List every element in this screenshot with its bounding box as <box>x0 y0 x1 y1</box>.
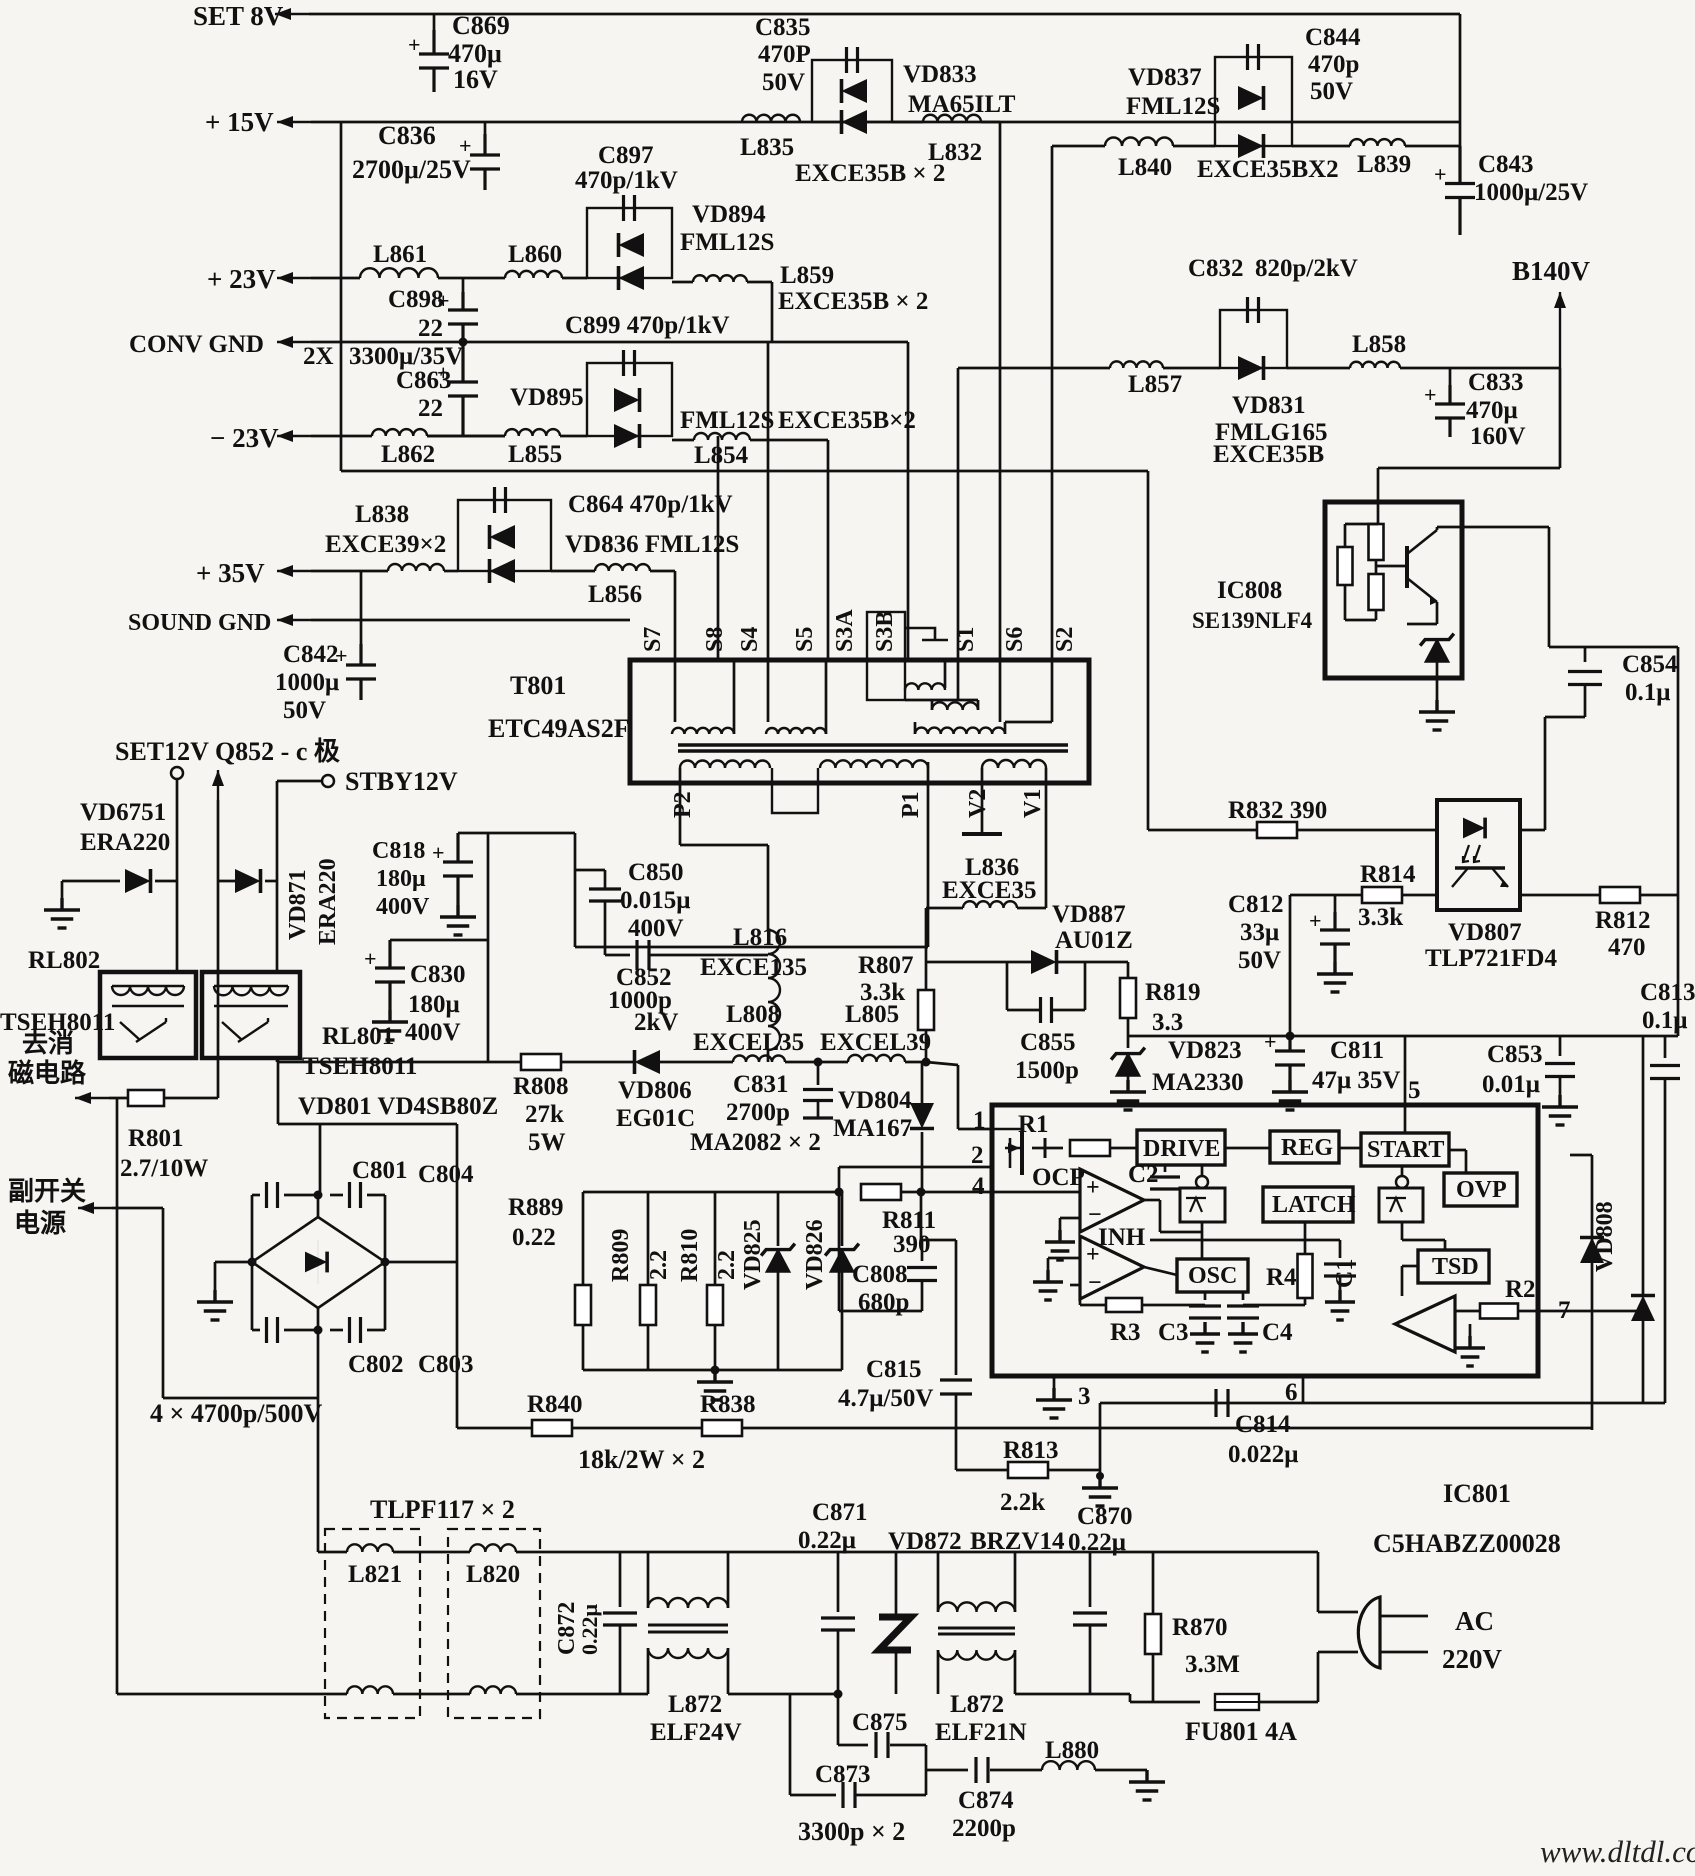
svg-text:C863: C863 <box>396 367 452 394</box>
wire <box>905 699 978 702</box>
diode VD833a <box>842 79 868 103</box>
wire <box>1201 1165 1204 1176</box>
svg-text:EXCE35B × 2: EXCE35B × 2 <box>778 288 928 315</box>
wire <box>218 880 235 883</box>
wire <box>1159 1200 1162 1232</box>
wire to S5 <box>827 440 830 660</box>
svg-text:5W: 5W <box>528 1129 566 1156</box>
svg-text:+: + <box>432 840 445 865</box>
svg-text:TLPF117 × 2: TLPF117 × 2 <box>370 1495 515 1524</box>
capacitor <box>1150 1177 1180 1189</box>
LATCH block <box>1263 1187 1353 1222</box>
svg-text:C1: C1 <box>1332 1259 1358 1288</box>
svg-text:S2: S2 <box>1052 627 1078 652</box>
svg-text:2200p: 2200p <box>952 1815 1016 1842</box>
svg-text:2X: 2X <box>303 343 334 370</box>
inductor L820 bottom <box>470 1686 516 1694</box>
wire <box>1449 1149 1466 1152</box>
capacitor C801 <box>267 1182 278 1208</box>
wire pin3 <box>1053 1376 1056 1388</box>
wire <box>1459 14 1462 146</box>
svg-text:1: 1 <box>973 1107 986 1134</box>
capacitor C869 <box>419 30 449 92</box>
wire <box>162 1208 165 1398</box>
wire <box>487 833 490 1062</box>
wire <box>1160 1231 1202 1234</box>
svg-text:400V: 400V <box>628 915 684 942</box>
svg-text:R870: R870 <box>1172 1614 1228 1641</box>
svg-text:L816: L816 <box>733 924 787 951</box>
svg-text:C3: C3 <box>1158 1319 1189 1346</box>
diode VD895b <box>614 424 640 448</box>
junction <box>1286 1032 1295 1041</box>
snubber box VD833 <box>812 60 892 122</box>
wire <box>921 1132 924 1192</box>
svg-text:L855: L855 <box>508 441 562 468</box>
svg-text:+: + <box>1424 382 1437 407</box>
wire <box>176 881 179 972</box>
wire <box>838 1192 841 1311</box>
wire to S1 <box>957 368 960 660</box>
arrow <box>277 121 311 123</box>
wire main bus <box>277 1061 523 1064</box>
wire <box>317 1330 320 1398</box>
wire <box>728 1551 838 1554</box>
svg-text:L872: L872 <box>668 1691 722 1718</box>
inductor L838 <box>388 564 444 571</box>
svg-text:VD871: VD871 <box>285 869 311 940</box>
wire <box>1242 1292 1245 1300</box>
svg-text:L821: L821 <box>348 1561 402 1588</box>
svg-text:L861: L861 <box>373 241 427 268</box>
inductor <box>112 986 184 995</box>
wire <box>1045 768 1048 783</box>
wire <box>1142 1304 1205 1307</box>
wire <box>1407 623 1437 626</box>
wire <box>1052 145 1105 148</box>
wire <box>660 1061 733 1064</box>
wire <box>1007 1009 1040 1012</box>
svg-text:+: + <box>364 946 377 971</box>
svg-text:VD836 FML12S: VD836 FML12S <box>565 531 739 558</box>
capacitor <box>803 1090 833 1101</box>
wire <box>1070 1284 1080 1287</box>
svg-text:22: 22 <box>418 395 443 422</box>
inductor L859 <box>693 275 747 282</box>
winding S7-S8 <box>672 728 734 734</box>
svg-text:L838: L838 <box>355 501 409 528</box>
svg-text:C814: C814 <box>1235 1411 1291 1438</box>
inductor L821 bottom <box>347 1686 393 1694</box>
wire <box>1129 1694 1132 1702</box>
svg-text:START: START <box>1367 1137 1444 1163</box>
wire <box>1292 145 1350 148</box>
diode <box>305 1252 327 1273</box>
wire <box>251 1262 254 1330</box>
wire <box>1444 1240 1447 1250</box>
svg-text:180μ: 180μ <box>376 866 426 892</box>
wire <box>217 881 220 1098</box>
winding S6-S2 <box>915 728 1005 734</box>
wire <box>252 1194 260 1197</box>
svg-text:7: 7 <box>1558 1297 1571 1324</box>
wire <box>647 1192 650 1285</box>
capacitor C855 <box>1041 997 1052 1023</box>
varistor VD872 <box>879 1617 911 1650</box>
svg-text:RL801: RL801 <box>322 1023 394 1050</box>
wire -23V rail <box>311 435 372 438</box>
svg-text:L856: L856 <box>588 581 642 608</box>
wire pin4 inside <box>992 1191 1080 1194</box>
wire <box>1164 1165 1167 1172</box>
wire <box>838 1551 1015 1554</box>
svg-text:470P: 470P <box>758 41 811 68</box>
wire <box>727 1648 730 1694</box>
svg-text:EXCE35B × 2: EXCE35B × 2 <box>795 160 945 187</box>
svg-text:390: 390 <box>893 1231 931 1258</box>
wire <box>921 1240 924 1261</box>
wire <box>1304 1298 1307 1305</box>
wire <box>367 1194 385 1197</box>
svg-text:L872: L872 <box>950 1691 1004 1718</box>
resistor R810 <box>707 1285 723 1325</box>
wire <box>1127 1018 1130 1036</box>
svg-text:EXCE135: EXCE135 <box>700 954 807 981</box>
zener VD825 <box>766 1250 790 1272</box>
svg-text:470: 470 <box>1608 934 1646 961</box>
wire <box>1544 717 1547 830</box>
wire <box>914 722 917 734</box>
wire <box>163 1397 318 1400</box>
resistor R870 <box>1145 1614 1161 1654</box>
wire <box>575 869 605 872</box>
svg-text:50V: 50V <box>1310 78 1353 105</box>
wire <box>619 1552 622 1607</box>
wire bank top rail <box>583 1191 839 1194</box>
wire <box>1084 962 1087 1010</box>
wire <box>672 439 694 442</box>
svg-text:TLP721FD4: TLP721FD4 <box>1425 945 1557 972</box>
wire <box>1400 367 1560 370</box>
svg-text:C853: C853 <box>1487 1041 1543 1068</box>
wire <box>956 1469 1010 1472</box>
wire <box>1130 1551 1318 1554</box>
wire <box>217 800 220 881</box>
svg-text:REG: REG <box>1281 1135 1333 1161</box>
wire <box>728 1693 838 1696</box>
svg-text:180μ: 180μ <box>408 991 460 1018</box>
svg-text:VD895: VD895 <box>510 384 584 411</box>
svg-text:L857: L857 <box>1128 371 1182 398</box>
wire S1 tap inner <box>957 660 960 700</box>
arrow <box>75 1097 109 1099</box>
svg-text:C855: C855 <box>1020 1029 1076 1056</box>
bridge rectifier VD801 <box>252 1217 385 1308</box>
wire <box>1548 527 1551 647</box>
REG block <box>1270 1131 1339 1163</box>
svg-text:C899 470p/1kV: C899 470p/1kV <box>565 312 730 339</box>
svg-text:R813: R813 <box>1003 1437 1059 1464</box>
wire <box>318 1551 347 1554</box>
svg-text:C802: C802 <box>348 1351 404 1378</box>
wire +35V rail <box>311 570 388 573</box>
wire <box>1455 1310 1480 1313</box>
svg-text:C4: C4 <box>1262 1319 1293 1346</box>
svg-text:C864 470p/1kV: C864 470p/1kV <box>568 491 733 518</box>
wire <box>1345 523 1378 526</box>
svg-text:L854: L854 <box>694 442 749 469</box>
zener VD826 <box>830 1250 854 1272</box>
wire <box>284 1329 318 1332</box>
wire left bus <box>340 122 343 471</box>
relay RL801 switch <box>222 1018 268 1042</box>
wire <box>925 962 928 990</box>
transformer T801 <box>630 660 1089 783</box>
wire CONV GND rail <box>311 341 908 344</box>
arrow <box>217 770 219 800</box>
wire <box>1664 1079 1667 1403</box>
wire R814 <box>1290 894 1437 897</box>
svg-text:L859: L859 <box>780 262 834 289</box>
ground <box>1045 1230 1075 1260</box>
DRIVE block <box>1137 1130 1225 1165</box>
svg-text:50V: 50V <box>1238 947 1281 974</box>
svg-text:C854: C854 <box>1622 651 1678 678</box>
wire <box>1130 1701 1200 1704</box>
resistor R1 <box>1070 1140 1110 1156</box>
wire <box>427 435 505 438</box>
wire <box>990 1769 1042 1772</box>
wire <box>575 946 928 949</box>
ground C812 <box>1317 962 1353 992</box>
svg-text:S7: S7 <box>640 627 666 652</box>
wire <box>895 1650 898 1694</box>
wire B140V rail <box>958 367 1110 370</box>
wire <box>1243 1304 1305 1307</box>
svg-text:400V: 400V <box>405 1019 461 1046</box>
capacitor C898 <box>448 292 478 342</box>
choke L872a bottom <box>648 1648 728 1658</box>
resistor R819 <box>1120 978 1136 1018</box>
wire <box>679 768 682 783</box>
wire <box>1015 1693 1130 1696</box>
svg-text:R819: R819 <box>1145 979 1201 1006</box>
wire <box>1317 1652 1320 1702</box>
wire <box>817 1101 820 1118</box>
wire <box>456 1262 459 1428</box>
svg-text:EXCE35B×2: EXCE35B×2 <box>778 407 916 434</box>
wire <box>277 1060 280 1124</box>
svg-text:C804: C804 <box>418 1161 474 1188</box>
inductor L857 <box>1110 361 1163 368</box>
inductor L821 top <box>347 1544 393 1552</box>
wire <box>484 122 487 140</box>
wire <box>1584 685 1587 717</box>
wire <box>1677 895 1680 1036</box>
wire <box>1318 1651 1358 1654</box>
svg-text:EXCE35: EXCE35 <box>942 877 1036 904</box>
capacitor C863 <box>448 342 478 436</box>
svg-text:4: 4 <box>972 1173 985 1200</box>
svg-text:18k/2W × 2: 18k/2W × 2 <box>578 1445 705 1474</box>
wire <box>1380 1651 1428 1654</box>
junction <box>917 1188 926 1197</box>
wire <box>925 908 928 962</box>
svg-text:2.2: 2.2 <box>646 1250 672 1280</box>
wire <box>790 1794 836 1797</box>
svg-text:VD833: VD833 <box>903 61 977 88</box>
wire <box>785 1061 848 1064</box>
wire <box>1339 1277 1342 1290</box>
svg-text:EG01C: EG01C <box>616 1105 695 1132</box>
junction <box>835 1188 844 1197</box>
wire <box>1318 1611 1358 1614</box>
wire <box>277 780 322 783</box>
svg-text:T801: T801 <box>510 671 566 700</box>
resistor R812 <box>1600 887 1640 903</box>
capacitor <box>1227 1306 1259 1318</box>
wire V2 lead <box>981 783 984 832</box>
svg-text:C813: C813 <box>1640 979 1695 1006</box>
wire into IC808 <box>1377 468 1380 502</box>
svg-text:22: 22 <box>418 315 443 342</box>
svg-text:R2: R2 <box>1505 1276 1536 1303</box>
TSD block <box>1418 1250 1489 1283</box>
wire <box>1051 700 1054 722</box>
svg-text:LATCH: LATCH <box>1272 1192 1356 1218</box>
snubber box VD894 <box>587 208 672 278</box>
AC plug <box>1358 1597 1380 1668</box>
wire <box>955 1240 958 1375</box>
svg-text:C844: C844 <box>1305 24 1361 51</box>
svg-text:L835: L835 <box>740 134 794 161</box>
winding S4-S5 <box>766 728 826 734</box>
svg-text:VD806: VD806 <box>618 1077 692 1104</box>
diode VD831 <box>1238 356 1264 380</box>
svg-text:47μ 35V: 47μ 35V <box>1312 1067 1400 1094</box>
svg-text:C871: C871 <box>812 1499 868 1526</box>
wire <box>825 660 828 734</box>
capacitor C842 <box>346 644 376 700</box>
svg-text:IC801: IC801 <box>1443 1479 1511 1508</box>
wire <box>672 281 693 284</box>
wire <box>1057 961 1128 964</box>
dashed box L820 <box>448 1529 540 1718</box>
capacitor <box>1324 1264 1356 1276</box>
capacitor C836 <box>470 134 500 190</box>
svg-text:R811: R811 <box>882 1207 936 1234</box>
ground bridge <box>197 1290 233 1320</box>
wire <box>385 1261 457 1264</box>
svg-text:SET 8V: SET 8V <box>193 1 284 31</box>
wire <box>1437 526 1549 529</box>
wire to S3A <box>907 342 910 660</box>
ground IC808 <box>1419 700 1455 730</box>
svg-text:FML12S: FML12S <box>680 229 774 256</box>
wire SET8V rail <box>309 13 1460 16</box>
svg-text:VD804: VD804 <box>838 1087 912 1114</box>
wire <box>838 1167 841 1192</box>
error amplifier triangle <box>1395 1296 1455 1352</box>
svg-text:0.22μ: 0.22μ <box>798 1527 856 1554</box>
svg-text:VD894: VD894 <box>692 201 766 228</box>
opto light arrows <box>1463 845 1480 862</box>
wire <box>1163 367 1220 370</box>
transformer core <box>678 743 1068 747</box>
svg-text:C815: C815 <box>866 1356 922 1383</box>
svg-text:C835: C835 <box>755 14 811 41</box>
wire <box>1127 962 1130 978</box>
wire <box>1014 1552 1017 1612</box>
svg-text:1000μ/25V: 1000μ/25V <box>1474 179 1588 206</box>
resistor R813 <box>1008 1462 1048 1478</box>
wire <box>920 1192 923 1240</box>
wire <box>1584 647 1587 662</box>
op-amp INH <box>1080 1236 1144 1299</box>
capacitor <box>1073 1613 1107 1625</box>
opto transistor <box>1455 866 1505 870</box>
wire <box>1173 145 1215 148</box>
svg-text:1500p: 1500p <box>1015 1057 1079 1084</box>
svg-text:C898: C898 <box>388 286 444 313</box>
wire <box>1015 1551 1130 1554</box>
choke L872b top <box>938 1602 1015 1612</box>
wire R832 <box>1148 829 1437 832</box>
relay RL801 <box>202 972 300 1058</box>
wire <box>1017 907 1046 910</box>
ground resistor bank <box>697 1370 733 1400</box>
wire <box>1436 660 1439 700</box>
wire <box>1032 1147 1045 1150</box>
wire pin7 <box>1518 1310 1643 1313</box>
capacitor C835 <box>847 47 858 73</box>
svg-text:C897: C897 <box>598 142 654 169</box>
svg-text:R809: R809 <box>608 1229 634 1282</box>
wire <box>1047 1258 1050 1270</box>
svg-text:SE139NLF4: SE139NLF4 <box>1192 608 1313 633</box>
wire <box>1401 1222 1404 1240</box>
ground R813 <box>1082 1476 1118 1506</box>
svg-text:470p/1kV: 470p/1kV <box>575 167 678 194</box>
svg-text:C831: C831 <box>733 1071 789 1098</box>
svg-text:TSD: TSD <box>1432 1254 1479 1280</box>
svg-text:R838: R838 <box>700 1391 756 1418</box>
wire VCC rail <box>1128 1035 1678 1038</box>
wire <box>1469 1324 1472 1336</box>
wire <box>1150 1239 1340 1242</box>
dashed box L821 <box>325 1529 420 1718</box>
ground <box>1033 1270 1063 1300</box>
wire <box>456 1124 459 1262</box>
arrow <box>277 619 311 621</box>
capacitor <box>976 1757 988 1783</box>
wire <box>155 880 177 883</box>
wire <box>1334 895 1337 918</box>
wire <box>1304 1222 1307 1240</box>
wire <box>1006 962 1009 1010</box>
wire <box>252 1329 260 1332</box>
wire <box>931 700 934 710</box>
svg-text:3: 3 <box>1078 1383 1091 1410</box>
wire <box>1052 1009 1085 1012</box>
wire <box>215 1261 252 1264</box>
svg-text:C830: C830 <box>410 961 466 988</box>
relay RL801 coil <box>214 985 288 987</box>
wire AC bottom <box>117 1693 347 1696</box>
resistor R808 <box>521 1054 561 1070</box>
wire <box>1225 1147 1270 1150</box>
wire <box>251 1195 254 1262</box>
